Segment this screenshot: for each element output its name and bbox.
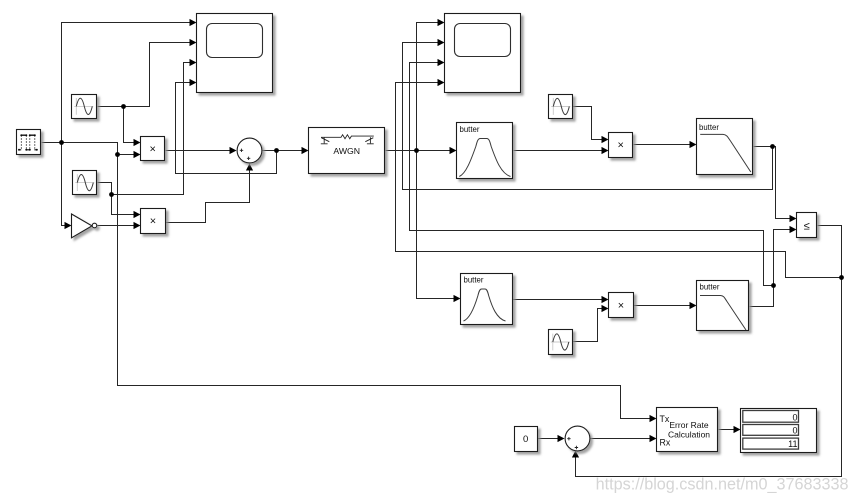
wire long Tx line down and right to Error Rate Tx	[118, 155, 651, 419]
product P4	[609, 293, 634, 318]
node junction product1 input2	[115, 152, 120, 157]
arrowhead bandpass2 input	[454, 295, 461, 302]
wire junction right to product1 input2	[62, 143, 135, 155]
arrowhead scope2 input2	[438, 39, 445, 46]
arrowhead NOT gate input	[65, 222, 72, 229]
sine wave source Sine1	[72, 95, 97, 119]
svg-text:butter: butter	[700, 283, 720, 292]
wire AWGN junction up to scope2 input1	[417, 23, 439, 151]
svg-text:Calculation: Calculation	[668, 429, 710, 439]
arrowhead sum2 bottom	[572, 451, 579, 458]
arrowhead scope2 input4	[438, 79, 445, 86]
arrowhead bandpass1 input	[450, 147, 457, 154]
wire sine4 output to product4 input2	[573, 309, 603, 342]
arrowhead product4 input2	[602, 305, 609, 312]
svg-text:butter: butter	[699, 123, 719, 132]
wire relational junction to scope2 input4	[396, 83, 842, 278]
arrowhead product1 input1	[134, 139, 141, 146]
wire AWGN junction down to bandpass2 input	[417, 151, 455, 299]
node junction relational output	[839, 275, 844, 280]
svg-text:×: ×	[617, 139, 623, 151]
wire lowpass1 junction to scope2 input2	[403, 43, 773, 190]
scope Scope1	[197, 14, 273, 93]
wire junction to scope1 input2	[124, 43, 191, 107]
wire product3 output to lowpass1 input	[634, 144, 691, 146]
wire sum1 output to AWGN input	[262, 150, 303, 152]
wire bandpass1 output to product3 input2	[514, 150, 603, 152]
wire sum2 output to Error Rate Rx	[590, 438, 651, 440]
node junction lowpass2 output	[771, 283, 776, 288]
svg-text:×: ×	[618, 300, 624, 312]
node junction sine2	[109, 192, 114, 197]
svg-text:butter: butter	[464, 275, 484, 284]
arrowhead Error Rate Rx input	[650, 435, 657, 442]
arrowhead scope1 input2	[190, 39, 197, 46]
product P1	[141, 137, 165, 161]
arrowhead lowpass2 input	[690, 302, 697, 309]
svg-text:0: 0	[792, 412, 797, 422]
sine wave source Sine2	[73, 171, 97, 195]
arrowhead relational input1	[790, 215, 797, 222]
arrowhead product3 input1	[602, 136, 609, 143]
wire junction down to product1 input1	[124, 107, 135, 143]
wire AWGN output to bandpass1 input	[386, 150, 451, 152]
wire Error Rate output to display	[719, 429, 735, 431]
pulse generator	[17, 130, 41, 155]
wire lowpass1 output to relational input1	[754, 147, 791, 219]
svg-text:11: 11	[788, 439, 797, 449]
sum S2	[565, 426, 590, 451]
arrowhead sum1 left	[230, 147, 237, 154]
svg-text:Tx: Tx	[660, 414, 670, 424]
arrowhead lowpass1 input	[690, 141, 697, 148]
arrowhead AWGN input	[302, 147, 309, 154]
arrowhead scope2 input3	[438, 59, 445, 66]
wire junction down to product2 input1	[112, 195, 135, 215]
node junction sum1 output	[274, 148, 279, 153]
wire NOT gate output to product2 input2	[98, 225, 135, 227]
arrowhead product3 input2	[602, 147, 609, 154]
svg-text:≤: ≤	[804, 221, 810, 233]
node junction pulse	[59, 140, 64, 145]
svg-text:0: 0	[523, 434, 528, 445]
arrowhead display input	[734, 426, 741, 433]
arrowhead product1 input2	[134, 151, 141, 158]
constant 0	[515, 427, 538, 452]
node junction AWGN output	[414, 148, 419, 153]
NOT gate	[72, 214, 97, 238]
arrowhead scope1 input3	[190, 59, 197, 66]
wire junction down to NOT gate	[62, 143, 66, 226]
wire sine2 output to junction	[98, 183, 112, 195]
wire lowpass2 junction to scope2 input3	[410, 63, 774, 286]
error rate calculation block	[657, 408, 718, 452]
arrowhead scope1 input1	[190, 19, 197, 26]
arrowhead product4 input1	[602, 296, 609, 303]
bandpass filter butter1	[457, 123, 513, 179]
display block	[741, 409, 817, 453]
arrowhead sum2 left	[558, 435, 565, 442]
sum S1	[237, 138, 262, 163]
sine wave source Sine3	[549, 95, 573, 119]
wire sum1 output feedback to scope1 input4	[176, 83, 277, 174]
arrowhead sum1 bottom	[246, 164, 253, 171]
wire junction up to scope1 input1	[62, 23, 191, 143]
svg-text:https://blog.csdn.net/m0_37683: https://blog.csdn.net/m0_37683338	[596, 475, 849, 493]
svg-text:×: ×	[149, 143, 155, 155]
node junction sine1	[121, 104, 126, 109]
arrowhead product2 input2	[134, 222, 141, 229]
wire product2 output to sum1 bottom	[166, 171, 250, 223]
svg-text:×: ×	[150, 216, 156, 228]
arrowhead product2 input1	[134, 211, 141, 218]
lowpass filter butter3	[697, 119, 753, 175]
wire sine1 output to junction	[98, 106, 124, 108]
arrowhead Error Rate Tx input	[650, 415, 657, 422]
svg-text:AWGN: AWGN	[333, 146, 360, 156]
wire lowpass2 output to relational input2	[750, 230, 791, 307]
scope Scope2	[445, 14, 521, 93]
svg-text:0: 0	[792, 425, 797, 435]
wire pulse output to junction	[42, 142, 62, 144]
arrowhead scope1 input4	[190, 79, 197, 86]
relational operator U1	[797, 213, 817, 238]
product P3	[609, 133, 633, 158]
node junction lowpass1 output	[770, 144, 775, 149]
svg-text:butter: butter	[460, 125, 480, 134]
wire constant output to sum2 left	[538, 438, 559, 440]
wire junction to scope1 input3	[112, 63, 191, 195]
wire sine3 output to product3 input1	[573, 107, 603, 140]
wire product4 output to lowpass2 input	[634, 305, 691, 307]
AWGN channel	[309, 128, 385, 174]
wire bandpass2 output to product4 input1	[513, 299, 603, 301]
bandpass filter butter2	[461, 274, 513, 325]
arrowhead scope2 input1	[438, 19, 445, 26]
sine wave source Sine4	[549, 330, 573, 355]
lowpass filter butter4	[697, 281, 749, 331]
wire relational output feedback to sum2 bottom	[576, 226, 842, 477]
arrowhead relational input2	[790, 226, 797, 233]
wire product1 output to sum1 left	[166, 150, 231, 152]
product P2	[141, 209, 166, 234]
